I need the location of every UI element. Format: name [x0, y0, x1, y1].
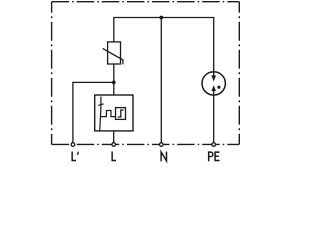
label N — [161, 151, 166, 161]
terminal PE — [212, 143, 216, 147]
enclosure dash-dot border left — [51, 2, 53, 145]
varistor diagonal stroke with tail — [103, 48, 123, 64]
spark gap gas dot — [217, 86, 220, 89]
spark gap upper arrow — [211, 75, 216, 81]
junction dot at N node — [159, 16, 163, 20]
wire: spark gap bottom to PE terminal — [213, 90, 215, 142]
terminal L' — [71, 143, 75, 147]
label E of PE — [215, 152, 220, 160]
enclosure dash-dot border bottom — [52, 143, 240, 145]
enclosure dash-dot border top — [52, 1, 240, 3]
varistor MOV body — [108, 42, 121, 64]
disconnector monitoring box — [95, 95, 133, 131]
wire: L' branch — [73, 82, 114, 142]
disconnector switch lever — [100, 97, 101, 131]
enclosure dash-dot border right — [238, 2, 240, 145]
terminal N — [160, 143, 164, 147]
label P of PE — [209, 152, 213, 161]
label L' — [72, 151, 76, 160]
label L — [112, 151, 116, 160]
wire: trigger box bottom to L terminal — [113, 131, 115, 143]
wire: N column vertical — [160, 18, 162, 143]
step glyph inside indicator — [118, 110, 124, 117]
indicator small square — [116, 108, 126, 120]
wire: varistor top up and across to spark gap column — [114, 18, 214, 77]
spark gap circle N-PE — [202, 72, 225, 95]
wire: varistor bottom down to L/L' junction — [113, 64, 115, 95]
disconnector thermal tick — [98, 104, 103, 106]
spark gap lower arrow — [211, 85, 216, 91]
junction dot L/L' — [112, 81, 116, 85]
trip linkage pulse waveform — [100, 111, 115, 117]
terminal L — [112, 143, 116, 147]
